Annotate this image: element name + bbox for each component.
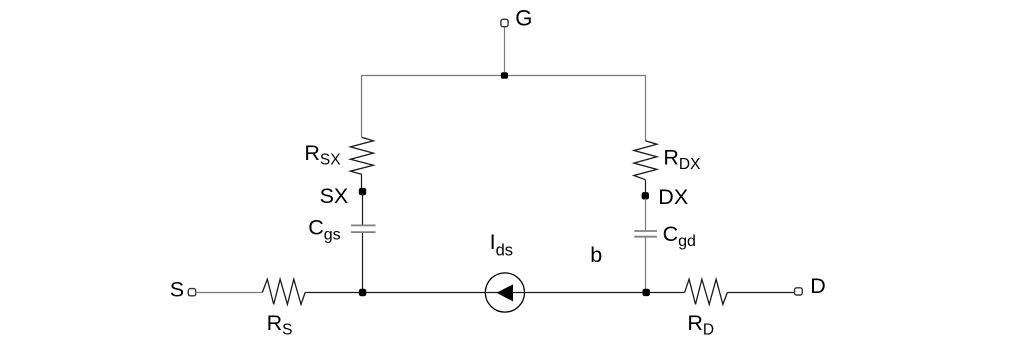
svg-text:S: S	[170, 277, 184, 301]
svg-text:b: b	[590, 243, 602, 267]
svg-text:D: D	[810, 274, 826, 298]
wire S to RS	[196, 292, 263, 294]
resistor RD	[685, 279, 728, 304]
wire G stem	[504, 28, 506, 76]
wire RSX to SX node	[361, 174, 363, 189]
wire RS to current source	[305, 292, 486, 294]
terminal D	[795, 288, 803, 295]
wire RD to D terminal	[727, 292, 794, 294]
node bottom-left junction	[359, 289, 366, 296]
wire SX node to Cgs	[362, 194, 364, 225]
wire through current source	[486, 292, 525, 294]
wire Cgs to bottom	[362, 233, 364, 293]
node SX	[359, 188, 366, 195]
svg-text:DX: DX	[658, 185, 688, 209]
capacitor Cgd	[634, 231, 657, 237]
current source Ids	[485, 273, 524, 312]
wire left vertical upper	[361, 75, 363, 138]
wire DX node to Cgd	[645, 199, 647, 231]
capacitor Cgs	[351, 225, 376, 232]
wire current source to bottom-right junction	[524, 292, 684, 294]
node bottom-right junction	[643, 289, 650, 296]
terminal G	[501, 19, 508, 26]
wire top horizontal	[362, 75, 647, 77]
resistor RS	[262, 279, 305, 304]
node G junction	[501, 72, 508, 78]
node DX	[642, 192, 649, 199]
svg-text:G: G	[515, 6, 532, 31]
terminal S	[188, 289, 195, 296]
resistor RDX	[634, 141, 657, 180]
wire Cgd to bottom	[645, 238, 647, 293]
svg-text:SX: SX	[320, 184, 349, 208]
wire RDX to DX node	[645, 180, 647, 193]
resistor RSX	[350, 137, 373, 174]
wire right vertical upper	[645, 75, 647, 141]
